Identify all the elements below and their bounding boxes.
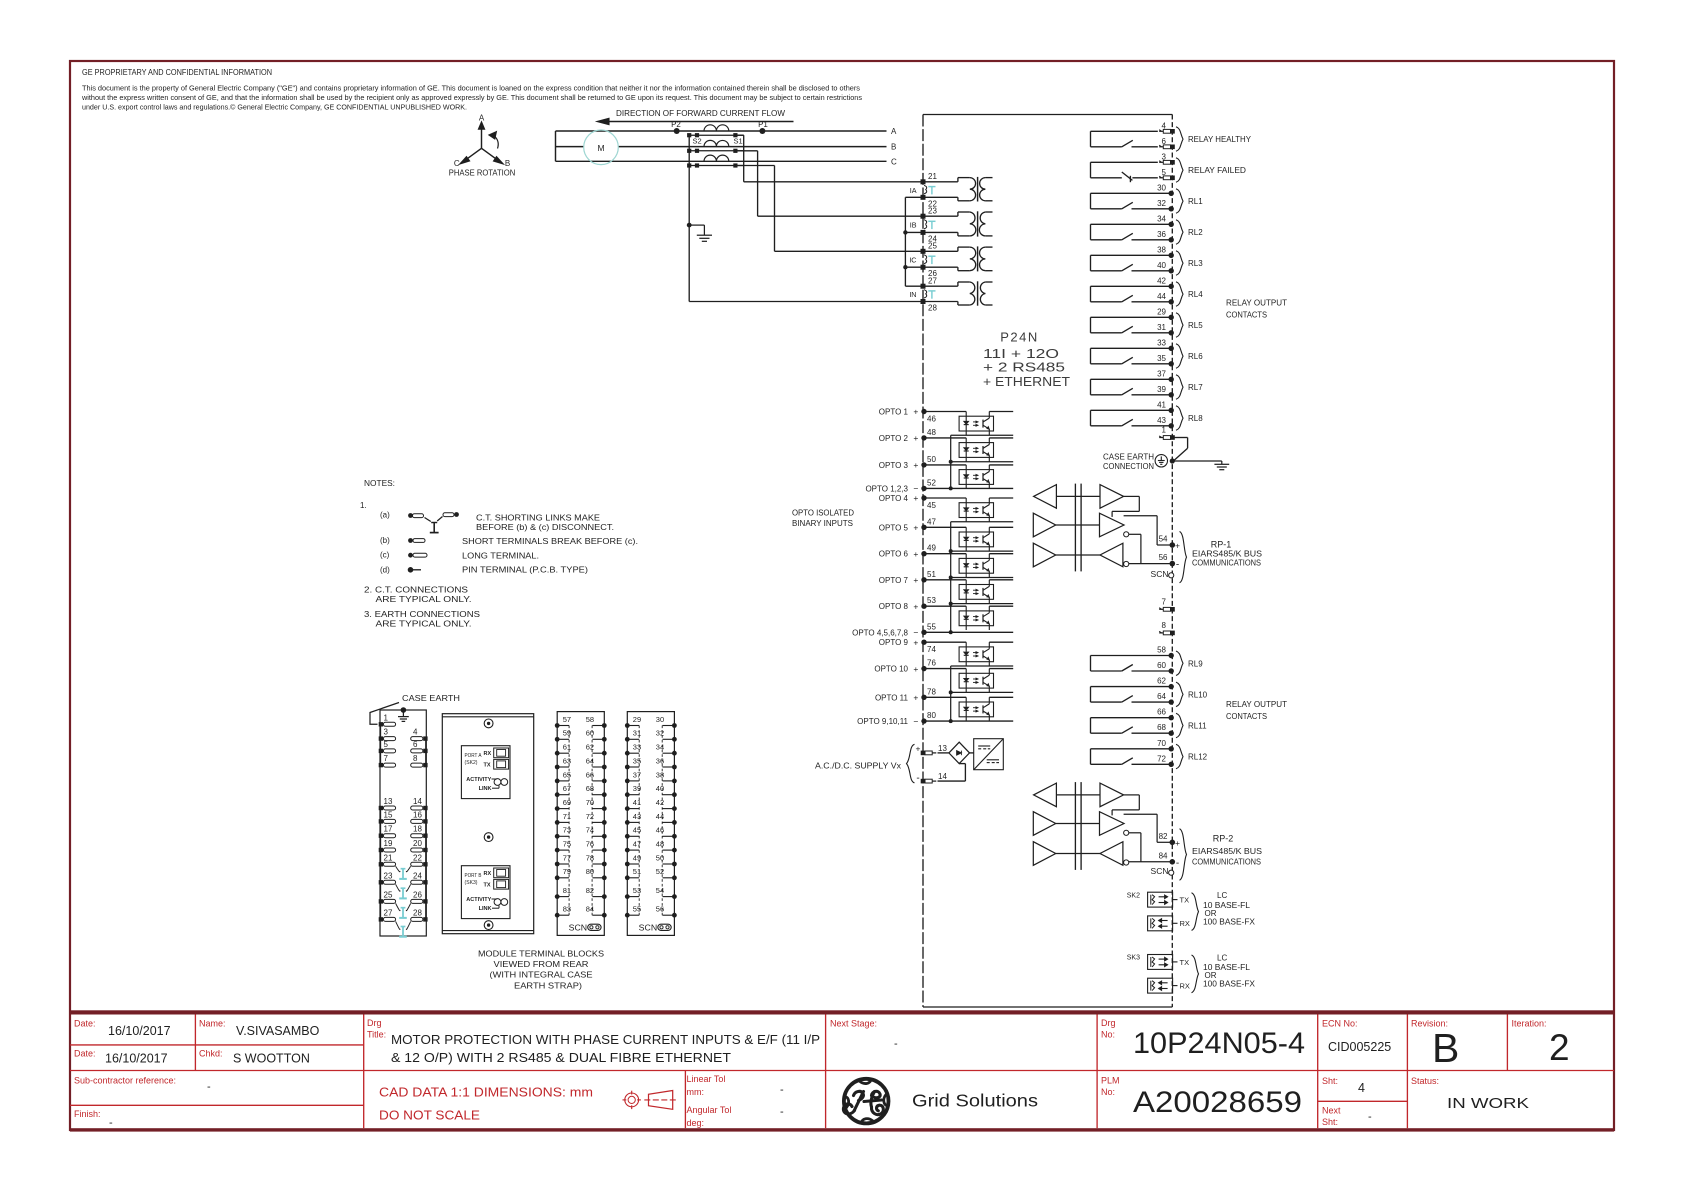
relay contact RL8 — [1091, 400, 1204, 430]
wire RP-1 to + terminal — [1124, 515, 1158, 517]
ground symbol — [1214, 461, 1229, 470]
terminal 63 — [555, 765, 560, 770]
svg-text:69: 69 — [563, 798, 571, 807]
wire RP-2 barrier line 1 — [1056, 794, 1100, 796]
terminal 57 — [555, 723, 560, 728]
wire terminal 14 to rectifier — [938, 780, 966, 782]
title block top border — [70, 1010, 1614, 1014]
terminal 23 — [921, 214, 926, 219]
svg-text:TX: TX — [1180, 896, 1190, 905]
terminal 83 — [555, 913, 560, 918]
svg-text:ARE TYPICAL ONLY.: ARE TYPICAL ONLY. — [376, 595, 472, 604]
label RL5 — [1176, 313, 1183, 338]
svg-text:OPTO 8: OPTO 8 — [879, 602, 909, 611]
svg-text:Date:: Date: — [74, 1049, 96, 1059]
svg-text:+: + — [913, 575, 918, 585]
terminal 56 — [672, 913, 677, 918]
optocoupler U10 — [923, 669, 1013, 693]
svg-text:RX: RX — [1180, 982, 1190, 991]
terminal 75 — [555, 848, 560, 853]
terminal 30 — [672, 723, 677, 728]
svg-text:27: 27 — [384, 908, 393, 917]
svg-text:CONTACTS: CONTACTS — [1226, 311, 1267, 320]
svg-text:+: + — [913, 523, 918, 533]
svg-text:3. EARTH CONNECTIONS: 3. EARTH CONNECTIONS — [364, 610, 480, 619]
svg-text:Angular Tol: Angular Tol — [687, 1105, 732, 1115]
optocoupler U6 — [923, 554, 1013, 578]
svg-text:(b): (b) — [380, 536, 390, 545]
buffer RP-2 output 1 — [1100, 783, 1124, 807]
terminal 71 — [555, 820, 560, 825]
svg-text:LC: LC — [1217, 953, 1227, 962]
svg-text:43: 43 — [633, 812, 641, 821]
svg-text:38: 38 — [656, 770, 664, 779]
CT TA secondary — [689, 134, 744, 136]
communication module front panel — [442, 714, 533, 934]
svg-text:31: 31 — [633, 729, 641, 738]
svg-text:59: 59 — [563, 729, 571, 738]
terminal 64 — [602, 765, 607, 770]
terminal 41 — [625, 806, 630, 811]
relay contact RELAY HEALTHY — [1091, 121, 1252, 151]
svg-text:+: + — [913, 637, 918, 647]
TB1 terminal 24 — [423, 880, 427, 884]
wire terminal 25 to transformer — [923, 250, 958, 252]
GE monogram logo — [843, 1079, 888, 1124]
TB1 terminal 16 — [423, 819, 427, 823]
node S2 earth junction — [687, 223, 692, 228]
svg-text:+: + — [916, 744, 921, 754]
svg-text:35: 35 — [1157, 354, 1166, 363]
svg-text:46: 46 — [927, 414, 936, 423]
bridge rectifier D1 — [949, 742, 970, 763]
terminal 26 — [921, 265, 926, 270]
svg-text:OPTO 3: OPTO 3 — [879, 461, 909, 470]
TB1 terminal 8 — [423, 763, 427, 767]
svg-text:67: 67 — [563, 784, 571, 793]
terminal 46 — [672, 834, 677, 839]
optocoupler U2 — [923, 438, 1013, 462]
svg-text:3: 3 — [384, 728, 389, 737]
label RELAY HEALTHY — [1176, 127, 1183, 152]
svg-text:82: 82 — [586, 886, 594, 895]
svg-text:13: 13 — [938, 744, 947, 753]
svg-text:33: 33 — [1157, 338, 1166, 347]
CT TA primary winding — [704, 125, 729, 131]
svg-text:18: 18 — [413, 825, 422, 834]
terminal 34 — [672, 751, 677, 756]
svg-text:EARTH STRAP): EARTH STRAP) — [514, 981, 582, 990]
svg-text:NOTES:: NOTES: — [364, 479, 395, 488]
svg-text:TX: TX — [484, 763, 491, 769]
svg-text:+: + — [913, 601, 918, 611]
svg-text:CAD DATA 1:1 DIMENSIONS: mm: CAD DATA 1:1 DIMENSIONS: mm — [379, 1085, 593, 1100]
svg-text:OPTO 5: OPTO 5 — [879, 523, 909, 532]
svg-text:66: 66 — [586, 770, 594, 779]
svg-text:S1: S1 — [734, 136, 743, 145]
wire terminal 27 to transformer — [923, 285, 958, 287]
motor M1 — [584, 130, 619, 165]
svg-text:35: 35 — [633, 756, 641, 765]
svg-text:7: 7 — [1162, 597, 1167, 606]
svg-text:19: 19 — [384, 839, 393, 848]
CT shorting link IC — [924, 255, 927, 259]
svg-text:−: − — [913, 484, 918, 494]
svg-text:48: 48 — [927, 428, 936, 437]
terminal block TB3 outline — [627, 712, 674, 936]
relay contact RL10 — [1091, 677, 1208, 707]
buffer RP-2 driver 1 — [1033, 812, 1055, 836]
svg-text:25: 25 — [384, 890, 393, 899]
svg-text:77: 77 — [563, 853, 571, 862]
CT shorting link IB — [924, 220, 927, 225]
svg-text:54: 54 — [1159, 535, 1168, 544]
svg-text:49: 49 — [633, 853, 641, 862]
direction of forward current flow arrow — [597, 109, 794, 125]
relay contact RL12 — [1091, 739, 1208, 769]
svg-text:78: 78 — [586, 853, 594, 862]
wire rectifier to PSU — [970, 752, 974, 754]
relay contact RELAY FAILED — [1091, 152, 1247, 182]
svg-text:DIRECTION OF FORWARD CURREN: DIRECTION OF FORWARD CURRENT FLOW — [616, 109, 785, 118]
TB1 CT shorting link — [396, 903, 411, 918]
svg-text:48: 48 — [656, 840, 664, 849]
svg-text:74: 74 — [586, 826, 594, 835]
optocoupler U11 — [923, 697, 1013, 721]
wire RP-1 enable — [1129, 533, 1141, 535]
svg-text:No:: No: — [1101, 1030, 1115, 1040]
svg-text:without the express written co: without the express written consent of G… — [81, 93, 862, 102]
svg-text:23: 23 — [928, 207, 937, 216]
title block bottom border — [70, 1128, 1614, 1131]
svg-text:(WITH INTEGRAL CASE: (WITH INTEGRAL CASE — [490, 971, 594, 980]
svg-text:51: 51 — [927, 570, 936, 579]
label RL9 — [1176, 651, 1183, 676]
svg-text:40: 40 — [656, 784, 664, 793]
wire RP-2 barrier line 2 — [1056, 823, 1100, 825]
svg-text:28: 28 — [413, 908, 422, 917]
svg-text:84: 84 — [1159, 851, 1168, 860]
svg-text:71: 71 — [563, 812, 571, 821]
svg-text:RX: RX — [484, 871, 492, 877]
wire terminal 23 to transformer — [923, 215, 958, 217]
svg-text:50: 50 — [927, 455, 936, 464]
node terminal 54 — [1170, 542, 1176, 548]
svg-text:50: 50 — [656, 853, 664, 862]
svg-text:(SK3): (SK3) — [465, 880, 478, 886]
svg-text:37: 37 — [633, 770, 641, 779]
relay contact RL5 — [1091, 307, 1204, 337]
svg-text:+: + — [913, 433, 918, 443]
terminal 61 — [555, 751, 560, 756]
svg-text:IN: IN — [909, 290, 916, 299]
terminal 42 — [672, 806, 677, 811]
TB1 terminal 25 — [379, 899, 383, 903]
TB1 terminal 14 — [423, 806, 427, 810]
svg-text:OPTO 10: OPTO 10 — [874, 665, 908, 674]
svg-text:mm:: mm: — [687, 1087, 705, 1097]
svg-text:RELAY OUTPUT: RELAY OUTPUT — [1226, 700, 1287, 709]
svg-text:(SK2): (SK2) — [465, 760, 478, 766]
TB1 terminal 22 — [423, 862, 427, 866]
wire case earth to ground — [1172, 460, 1222, 462]
label RL7 — [1176, 375, 1183, 400]
svg-text:47: 47 — [927, 517, 936, 526]
svg-text:25: 25 — [928, 242, 937, 251]
svg-text:MOTOR PROTECTION WITH PHASE CU: MOTOR PROTECTION WITH PHASE CURRENT INPU… — [391, 1032, 820, 1047]
svg-text:RP-2: RP-2 — [1213, 834, 1234, 844]
svg-text:3: 3 — [1162, 152, 1167, 161]
svg-text:V.SIVASAMBO: V.SIVASAMBO — [236, 1024, 320, 1038]
svg-text:42: 42 — [1157, 276, 1166, 285]
svg-text:-: - — [780, 1084, 784, 1096]
svg-text:RL12: RL12 — [1188, 753, 1208, 762]
svg-text:15: 15 — [384, 810, 393, 819]
phase rotation symbol — [449, 113, 516, 177]
terminal 80 — [602, 875, 607, 880]
svg-text:PHASE ROTATION: PHASE ROTATION — [449, 167, 516, 177]
svg-text:Title:: Title: — [367, 1030, 386, 1040]
wire RP-1 to - terminal — [1129, 563, 1173, 565]
svg-text:C.T. SHORTING LINKS MAKE: C.T. SHORTING LINKS MAKE — [476, 513, 600, 522]
svg-text:PORT B: PORT B — [465, 873, 482, 879]
wire terminal 26 to transformer — [923, 266, 958, 268]
svg-text:C: C — [891, 157, 897, 166]
svg-text:84: 84 — [586, 905, 594, 914]
svg-text:8: 8 — [413, 754, 418, 763]
svg-text:36: 36 — [656, 756, 664, 765]
svg-text:56: 56 — [656, 905, 664, 914]
svg-text:OPTO 11: OPTO 11 — [875, 693, 909, 702]
wire RP-2 barrier line 3 — [1056, 853, 1100, 855]
svg-text:38: 38 — [1157, 245, 1166, 254]
svg-text:34: 34 — [1157, 214, 1166, 223]
svg-text:72: 72 — [1157, 754, 1166, 763]
node P2 — [674, 128, 680, 134]
svg-text:4: 4 — [1358, 1081, 1365, 1095]
terminal 49 — [625, 862, 630, 867]
panel screw — [484, 921, 493, 930]
svg-text:PLM: PLM — [1101, 1076, 1120, 1086]
terminal 55 — [625, 913, 630, 918]
svg-text:79: 79 — [563, 867, 571, 876]
svg-text:+ ETHERNET: + ETHERNET — [983, 374, 1070, 389]
svg-text:17: 17 — [384, 825, 393, 834]
SK3 RX fibre connector — [1148, 978, 1173, 993]
wire S2 common bus to terminal 28 — [688, 135, 690, 301]
svg-text:OPTO 2: OPTO 2 — [879, 434, 909, 443]
terminal 82 — [602, 894, 607, 899]
svg-text:75: 75 — [563, 840, 571, 849]
svg-text:2. C.T. CONNECTIONS: 2. C.T. CONNECTIONS — [364, 586, 468, 595]
svg-text:65: 65 — [563, 770, 571, 779]
buffer RP-1 driver 1 — [1033, 513, 1055, 537]
svg-text:62: 62 — [1157, 677, 1166, 686]
svg-text:RL9: RL9 — [1188, 659, 1203, 668]
isolation barrier RP-2 — [1074, 782, 1076, 870]
svg-text:-: - — [109, 1117, 113, 1129]
wire opto negative bus — [950, 522, 952, 633]
svg-text:OPTO 1: OPTO 1 — [879, 408, 909, 417]
svg-text:53: 53 — [633, 886, 641, 895]
wire RP-2 feedback — [1124, 794, 1140, 796]
svg-text:ACTIVITY: ACTIVITY — [466, 777, 491, 783]
terminal 54 — [672, 894, 677, 899]
terminal 7 — [1163, 607, 1170, 611]
svg-text:64: 64 — [586, 756, 594, 765]
svg-text:S WOOTTON: S WOOTTON — [233, 1052, 310, 1066]
buffer RP-1 output 1 — [1100, 485, 1124, 509]
buffer RP-2 receiver — [1034, 783, 1057, 807]
svg-text:RL3: RL3 — [1188, 259, 1203, 268]
optocoupler U7 — [923, 580, 1013, 604]
svg-text:24: 24 — [413, 871, 422, 880]
relay contact RL4 — [1091, 276, 1204, 306]
svg-text:60: 60 — [1157, 661, 1166, 670]
label RL12 — [1176, 744, 1183, 769]
label RELAY FAILED — [1176, 158, 1183, 183]
panel screw — [484, 833, 493, 842]
svg-text:A: A — [479, 113, 485, 122]
terminal 69 — [555, 806, 560, 811]
earth connection at CT common — [689, 224, 704, 226]
wire terminal 24 to transformer — [923, 231, 958, 233]
terminal 53 — [625, 894, 630, 899]
buffer RP-1 output 2 — [1100, 513, 1125, 537]
wire RP-2 enable — [1129, 832, 1141, 834]
wire RP-1 feedback — [1124, 495, 1140, 497]
label RL6 — [1176, 344, 1183, 369]
svg-text:66: 66 — [1157, 708, 1166, 717]
svg-text:−: − — [913, 628, 918, 638]
node terminal 84 — [1170, 859, 1176, 865]
svg-text:IC: IC — [909, 255, 916, 264]
note b symbol — [408, 538, 413, 543]
svg-text:58: 58 — [1157, 646, 1166, 655]
svg-text:RL5: RL5 — [1188, 321, 1203, 330]
node terminal 82 — [1170, 840, 1176, 846]
svg-text:BEFORE (b) & (c) DISCONNECT.: BEFORE (b) & (c) DISCONNECT. — [476, 523, 614, 532]
SK3 brace — [1192, 955, 1199, 993]
CT TB primary winding — [704, 140, 729, 146]
svg-text:(c): (c) — [380, 551, 390, 560]
svg-text:P24N: P24N — [1000, 330, 1039, 345]
terminal 32 — [672, 737, 677, 742]
TB1 CT shorting link — [396, 921, 411, 936]
svg-text:PIN TERMINAL (P.C.B. TYPE): PIN TERMINAL (P.C.B. TYPE) — [462, 565, 588, 574]
svg-text:RL10: RL10 — [1188, 690, 1208, 699]
svg-text:41: 41 — [633, 798, 641, 807]
svg-text:RELAY HEALTHY: RELAY HEALTHY — [1188, 135, 1252, 144]
relay contact RL1 — [1091, 183, 1204, 213]
svg-text:14: 14 — [938, 772, 947, 781]
svg-text:-: - — [1176, 858, 1179, 869]
terminal 25 — [921, 249, 926, 254]
svg-text:Linear Tol: Linear Tol — [687, 1074, 726, 1084]
svg-text:GE PROPRIETARY AND CONFIDENTIA: GE PROPRIETARY AND CONFIDENTIAL INFORMAT… — [82, 68, 272, 77]
svg-text:No:: No: — [1101, 1087, 1115, 1097]
svg-text:MODULE TERMINAL BLOCKS: MODULE TERMINAL BLOCKS — [478, 949, 605, 958]
wire RP-1 barrier line 1 — [1056, 495, 1100, 497]
svg-text:LONG TERMINAL.: LONG TERMINAL. — [462, 552, 539, 561]
panel screw — [484, 719, 493, 728]
relay contact RL6 — [1091, 338, 1204, 368]
svg-text:Drg: Drg — [1101, 1018, 1116, 1028]
svg-text:IN WORK: IN WORK — [1447, 1096, 1529, 1112]
CT TC secondary — [689, 165, 744, 167]
svg-text:P1: P1 — [758, 120, 768, 129]
svg-text:RL11: RL11 — [1188, 722, 1207, 731]
svg-text:70: 70 — [1157, 739, 1166, 748]
wire opto negative bus — [950, 666, 952, 721]
svg-text:B: B — [891, 143, 896, 152]
TB1 terminal 3 — [379, 736, 383, 740]
label RL3 — [1176, 251, 1183, 275]
terminal 58 — [602, 723, 607, 728]
terminal 62 — [602, 751, 607, 756]
label RL11 — [1176, 713, 1183, 738]
svg-text:78: 78 — [927, 687, 936, 696]
svg-text:LINK: LINK — [479, 906, 492, 912]
svg-text:22: 22 — [413, 853, 422, 862]
svg-text:44: 44 — [1157, 292, 1166, 301]
svg-text:RX: RX — [1180, 919, 1190, 928]
optocoupler U5 — [923, 527, 1013, 551]
terminal 52 — [672, 875, 677, 880]
svg-text:+: + — [913, 460, 918, 470]
svg-text:+: + — [913, 493, 918, 503]
TB1 terminal 1 — [379, 722, 383, 726]
svg-text:57: 57 — [563, 715, 571, 724]
buffer RP-2 output 3 — [1100, 842, 1123, 866]
terminal 50 — [672, 862, 677, 867]
svg-text:21: 21 — [928, 172, 937, 181]
svg-text:EIARS485/K BUS: EIARS485/K BUS — [1192, 846, 1262, 856]
svg-text:39: 39 — [1157, 385, 1166, 394]
terminal 81 — [555, 894, 560, 899]
svg-text:8: 8 — [1162, 621, 1167, 630]
note c symbol — [408, 553, 413, 558]
svg-text:76: 76 — [927, 659, 936, 668]
terminal 33 — [625, 751, 630, 756]
label RL8 — [1176, 406, 1183, 431]
svg-text:BINARY INPUTS: BINARY INPUTS — [792, 519, 853, 528]
terminal 36 — [672, 765, 677, 770]
terminal 28 — [921, 299, 926, 304]
svg-text:4: 4 — [1162, 121, 1167, 130]
terminal 31 — [625, 737, 630, 742]
svg-text:OPTO 9,10,11: OPTO 9,10,11 — [857, 717, 908, 726]
terminal 51 — [625, 875, 630, 880]
optocoupler U1 — [923, 412, 1013, 436]
svg-text:29: 29 — [1157, 307, 1166, 316]
svg-text:60: 60 — [586, 729, 594, 738]
svg-text:31: 31 — [1157, 323, 1166, 332]
input transformer IA — [958, 177, 993, 202]
svg-text:Sht:: Sht: — [1322, 1117, 1338, 1127]
terminal 79 — [555, 875, 560, 880]
SK2 RX fibre connector — [1148, 916, 1173, 931]
wire residual bus 22-24-26 to terminal 27 — [905, 196, 923, 198]
terminal 39 — [625, 792, 630, 797]
svg-text:CID005225: CID005225 — [1328, 1040, 1391, 1054]
svg-text:-: - — [1176, 560, 1179, 571]
terminal 24 — [921, 230, 926, 235]
relay contact RL2 — [1091, 214, 1204, 244]
svg-text:OPTO 4,5,6,7,8: OPTO 4,5,6,7,8 — [852, 628, 908, 637]
svg-text:76: 76 — [586, 840, 594, 849]
svg-text:-: - — [780, 1106, 784, 1118]
